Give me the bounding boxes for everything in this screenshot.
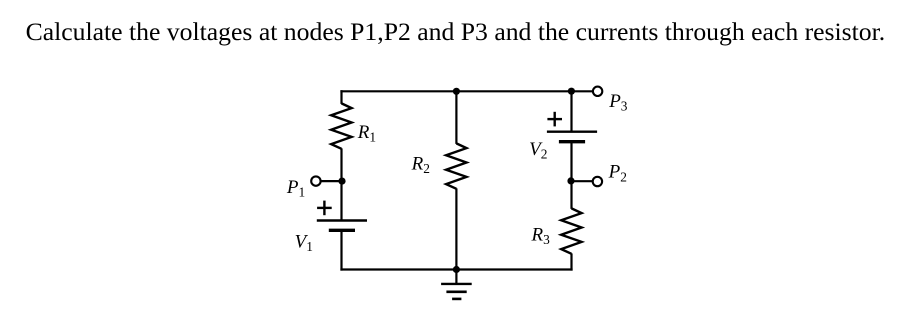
resistor R3 [561,208,581,253]
wire middle vertical lower [455,188,457,269]
wire top rail [340,90,592,92]
terminal P3 [593,87,602,96]
svg-text:P1: P1 [286,177,305,200]
terminal P2 [593,177,602,186]
junction bottom middle node [453,266,460,273]
junction top middle node [453,88,460,95]
wire bottom rail [340,268,572,270]
wire stub to P2 [571,180,592,182]
wire left vertical lower [340,230,342,270]
terminal P1 [311,176,320,185]
wire left vertical middle [340,148,342,220]
battery V1 [317,221,367,231]
svg-text:V1: V1 [295,231,313,254]
question text [26,19,886,45]
wire right vertical middle [570,142,572,209]
resistor R1 [331,103,351,148]
svg-text:R1: R1 [357,122,376,145]
polarity plus V2 [547,112,562,127]
junction node P1 [338,178,345,185]
battery V2 [547,132,597,142]
svg-text:P3: P3 [608,91,628,114]
wire left vertical upper [340,90,342,104]
wire right vertical lower [570,253,572,270]
junction node P2 [567,177,574,184]
ground [441,284,472,299]
svg-text:V2: V2 [529,139,547,162]
wire middle vertical upper [455,91,457,144]
svg-text:R3: R3 [531,224,551,247]
wire stub to P1 [321,180,343,182]
polarity plus V1 [317,201,332,216]
svg-text:R2: R2 [411,153,430,176]
wire right vertical upper [570,90,572,132]
wire ground stub [455,270,457,284]
junction top right node [568,88,575,95]
resistor R2 [446,143,466,188]
svg-text:P2: P2 [608,162,627,185]
